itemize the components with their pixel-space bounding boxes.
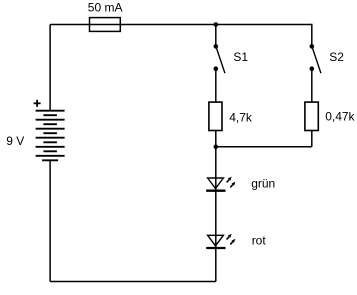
wire left vertical bottom	[49, 160, 51, 281]
switch S2	[310, 44, 345, 73]
node junction top	[214, 22, 219, 27]
battery BT1 9 V	[6, 100, 64, 161]
svg-text:grün: grün	[251, 177, 275, 191]
svg-text:S2: S2	[329, 50, 344, 64]
svg-text:50 mA: 50 mA	[88, 1, 123, 15]
LED D2 rot	[206, 234, 266, 249]
wire left vertical top	[49, 25, 51, 112]
svg-text:4,7k: 4,7k	[229, 111, 253, 125]
svg-text:S1: S1	[233, 50, 248, 64]
fuse F1 50 mA	[88, 1, 123, 32]
wire top corner to S2	[311, 24, 313, 45]
LED D1 gruen	[206, 177, 275, 191]
wire R2 to mid wire	[311, 131, 313, 147]
wire junction to S1	[215, 25, 217, 46]
node junction mid	[214, 145, 219, 150]
battery plates	[36, 111, 65, 161]
wire mid horizontal to R2 branch	[216, 146, 312, 148]
svg-text:rot: rot	[252, 234, 267, 248]
wire top horizontal	[50, 24, 312, 26]
plus sign	[34, 100, 41, 107]
switch S1	[214, 44, 249, 73]
resistor R1 4,7k	[209, 102, 253, 130]
svg-text:0,47k: 0,47k	[325, 110, 355, 124]
wire R1 down through LEDs column	[215, 131, 217, 282]
resistor R2 0,47k	[305, 102, 356, 130]
wire S2 to R2	[311, 70, 313, 102]
wire S1 to R1	[215, 70, 217, 102]
wire bottom horizontal	[50, 281, 216, 283]
svg-text:9 V: 9 V	[6, 134, 24, 148]
